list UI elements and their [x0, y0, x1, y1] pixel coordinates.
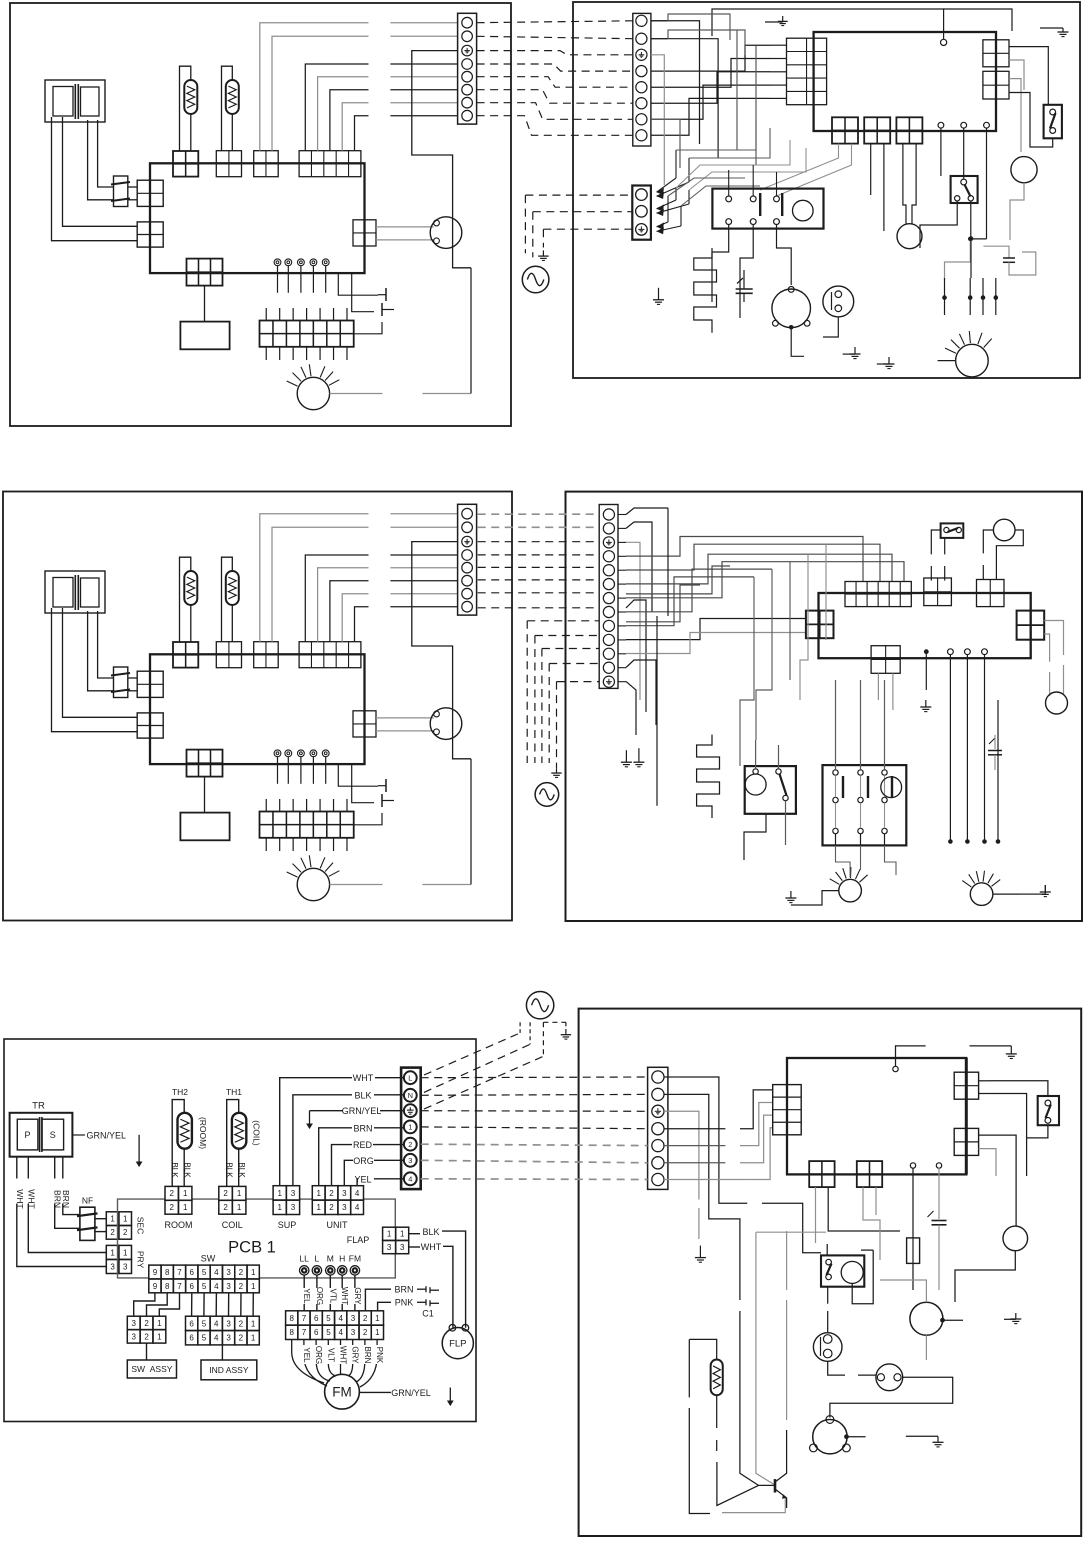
svg-text:FM: FM	[349, 1254, 361, 1264]
svg-text:4: 4	[355, 1203, 360, 1212]
connector above-PCB 1	[924, 578, 952, 606]
wire SW to SW-ASSY	[134, 1293, 155, 1316]
connector PCB-top 6x2	[845, 582, 911, 607]
display assembly box	[180, 322, 229, 350]
wire SUP to terminal rows 1-2	[260, 23, 369, 151]
wire long vertical	[667, 508, 669, 616]
svg-text:TR: TR	[32, 1101, 45, 1112]
overload protector 49C	[823, 286, 854, 317]
fan motor MF B1	[839, 879, 862, 902]
svg-text:TH2: TH2	[172, 1087, 188, 1097]
svg-text:1: 1	[375, 1314, 380, 1323]
wire BRN	[319, 1128, 352, 1186]
connector bottom C2	[857, 1161, 882, 1187]
svg-text:1: 1	[123, 1248, 128, 1257]
wire terminal stubs B	[618, 514, 626, 516]
outdoor fan motor MF	[956, 344, 989, 377]
connector fan-motor 7pin	[260, 812, 354, 838]
svg-text:FLAP: FLAP	[347, 1235, 370, 1245]
noise filter NF	[114, 667, 128, 698]
connector ROOM	[173, 642, 198, 668]
svg-text:VLT: VLT	[326, 1348, 335, 1362]
svg-text:GRN/YEL: GRN/YEL	[391, 1388, 431, 1398]
ground compressor C	[906, 1435, 938, 1437]
AC source power B	[535, 783, 559, 807]
svg-text:PRY: PRY	[136, 1251, 146, 1269]
svg-text:2: 2	[363, 1314, 368, 1323]
svg-text:VTL: VTL	[328, 1289, 337, 1304]
svg-text:1: 1	[110, 1248, 115, 1257]
connector SEC	[137, 180, 163, 206]
wire pin legs down	[949, 655, 951, 842]
wires power feed B dashed	[527, 620, 599, 622]
connector FM 8-pin	[286, 1311, 298, 1325]
panel border indoor unit B	[3, 492, 512, 921]
connector UNIT	[299, 151, 361, 177]
capacitor C3	[983, 246, 1009, 258]
svg-text:1: 1	[251, 1334, 256, 1343]
wire harness rows to PCB area	[626, 537, 863, 582]
svg-text:6: 6	[314, 1314, 319, 1323]
svg-text:PNK: PNK	[375, 1347, 384, 1364]
svg-text:2: 2	[144, 1319, 149, 1328]
motor 21S4 B	[993, 519, 1015, 541]
svg-text:COIL: COIL	[222, 1220, 243, 1230]
terminal block outdoor A	[633, 13, 651, 146]
PCB main board	[150, 163, 365, 273]
wire ground path C	[664, 1111, 699, 1199]
ground right C	[1004, 1318, 1016, 1320]
wires AC diagonal dashed	[424, 1033, 520, 1075]
contactor 88C	[745, 766, 796, 814]
connector above-PCB 2	[977, 580, 1005, 607]
connector SUP detail	[273, 1186, 286, 1200]
svg-text:9: 9	[153, 1282, 158, 1291]
svg-text:4: 4	[214, 1319, 219, 1328]
svg-text:M: M	[327, 1254, 334, 1264]
svg-text:WHT: WHT	[339, 1346, 348, 1364]
fan motor FM detail	[325, 1374, 360, 1409]
wire transformer leads	[52, 117, 138, 241]
switch 63H	[1044, 105, 1062, 139]
svg-text:ROOM: ROOM	[165, 1220, 193, 1230]
svg-text:2: 2	[223, 1189, 228, 1198]
svg-text:1: 1	[251, 1319, 256, 1328]
connector FLAP detail	[383, 1227, 396, 1240]
svg-text:2: 2	[408, 1140, 412, 1149]
svg-text:BLK: BLK	[170, 1162, 179, 1178]
thermistor TH1	[222, 66, 233, 151]
svg-text:ORG: ORG	[353, 1156, 374, 1166]
svg-text:C1: C1	[422, 1309, 434, 1319]
connector PRY	[137, 222, 163, 247]
terminals LL L M H FM	[274, 259, 281, 266]
connector IND-ASSY grid	[186, 1316, 198, 1330]
svg-text:6: 6	[314, 1328, 319, 1337]
wire legs below C conns	[815, 1187, 817, 1243]
svg-text:3: 3	[387, 1243, 392, 1252]
svg-text:3: 3	[123, 1262, 128, 1271]
svg-text:8: 8	[289, 1328, 294, 1337]
svg-text:2: 2	[239, 1268, 244, 1277]
wire top runs	[668, 14, 730, 40]
ground top-right	[1040, 27, 1063, 29]
ground AC A	[542, 250, 544, 256]
svg-text:8: 8	[165, 1282, 170, 1291]
svg-text:1: 1	[316, 1203, 321, 1212]
svg-text:L: L	[408, 1073, 412, 1082]
svg-text:3: 3	[226, 1282, 231, 1291]
wire row5 path	[664, 1145, 725, 1147]
svg-text:WHT: WHT	[421, 1242, 442, 1252]
wire row1 path	[678, 1077, 747, 1203]
svg-text:2: 2	[239, 1319, 244, 1328]
wire relay outputs	[712, 225, 729, 303]
svg-text:4: 4	[214, 1268, 219, 1277]
wire below switch	[920, 201, 957, 248]
svg-text:2: 2	[223, 1203, 228, 1212]
svg-text:2: 2	[169, 1189, 174, 1198]
wire gray verticals C	[786, 1231, 788, 1290]
svg-text:1: 1	[387, 1230, 392, 1239]
power terminal block A	[632, 186, 651, 240]
ground pair B	[625, 750, 627, 762]
capacitor C B	[994, 735, 996, 749]
svg-text:1: 1	[316, 1189, 321, 1198]
svg-text:GRY: GRY	[353, 1287, 362, 1305]
connector PCB-left B	[806, 611, 834, 639]
wire 8pin to FM	[292, 1340, 324, 1384]
ground MF B1	[790, 891, 792, 898]
svg-text:GRN/YEL: GRN/YEL	[87, 1131, 127, 1141]
fan motor FM	[297, 377, 329, 409]
svg-text:4: 4	[338, 1328, 343, 1337]
svg-text:5: 5	[202, 1268, 207, 1277]
relay 52C	[712, 189, 823, 229]
wire transformer leads	[52, 608, 138, 732]
thermal switch 23F	[876, 1364, 903, 1391]
pins PCB bottom edge	[924, 649, 929, 654]
svg-text:GRN/YEL: GRN/YEL	[342, 1106, 382, 1116]
wire GRN/YEL TR	[72, 1134, 85, 1136]
connector SEC	[137, 671, 163, 697]
wire pin to capacitor	[938, 1168, 940, 1219]
switch 63H C	[1038, 1096, 1059, 1125]
svg-text:1: 1	[375, 1328, 380, 1337]
terminals LL L M H FM	[274, 750, 281, 757]
wire feeder horizontals	[676, 120, 756, 150]
svg-text:9: 9	[153, 1268, 158, 1277]
svg-text:3: 3	[291, 1203, 296, 1212]
wire harness rows 4-8 to PCB	[651, 45, 771, 71]
IND ASSY box	[201, 1360, 257, 1380]
capacitor C6	[932, 1220, 947, 1222]
svg-text:3: 3	[400, 1243, 405, 1252]
connector PRY	[137, 713, 163, 738]
pin top of PCB	[941, 39, 947, 45]
ground AC C	[565, 1029, 567, 1035]
wire terminal stubs	[651, 20, 668, 22]
svg-text:3: 3	[131, 1332, 136, 1341]
svg-text:7: 7	[302, 1328, 307, 1337]
connector PCB-left 2x5	[787, 38, 827, 105]
svg-text:1: 1	[237, 1203, 242, 1212]
flap motor FLP detail	[449, 1324, 456, 1331]
svg-text:2: 2	[329, 1203, 334, 1212]
svg-text:H: H	[339, 1254, 345, 1264]
PCB 1 board	[118, 1199, 166, 1278]
svg-text:S: S	[50, 1130, 56, 1140]
ground top C	[970, 1045, 1012, 1047]
wire WHT	[280, 1078, 352, 1186]
noise filter NF	[114, 176, 128, 207]
svg-text:2: 2	[169, 1203, 174, 1212]
svg-text:8: 8	[289, 1314, 294, 1323]
wire harness verticals	[626, 508, 668, 515]
wire BRN C1	[365, 1289, 391, 1311]
svg-text:PCB 1: PCB 1	[228, 1239, 276, 1257]
svg-text:3: 3	[342, 1189, 347, 1198]
PCB outdoor board B	[819, 593, 1031, 658]
svg-text:3: 3	[342, 1203, 347, 1212]
svg-text:LL: LL	[299, 1254, 309, 1264]
svg-text:1: 1	[157, 1332, 162, 1341]
connector SEC detail	[106, 1212, 119, 1226]
svg-text:2: 2	[329, 1189, 334, 1198]
thermistor TH1	[222, 557, 233, 642]
fan motor MF C main	[910, 1302, 943, 1335]
wires interconnect panels 5-6 dashed	[421, 1076, 648, 1079]
svg-text:3: 3	[226, 1334, 231, 1343]
fan motor FM	[297, 868, 329, 900]
svg-text:2: 2	[239, 1334, 244, 1343]
flap motor FLP	[434, 711, 440, 717]
connector COIL	[216, 151, 241, 177]
svg-text:BRN: BRN	[353, 1123, 372, 1133]
svg-text:2: 2	[239, 1282, 244, 1291]
svg-text:2: 2	[363, 1328, 368, 1337]
crankcase heater CH	[694, 248, 717, 333]
wire relay to motors	[836, 845, 851, 877]
relay coil motor B	[881, 777, 902, 798]
wires power feed A dashed	[525, 194, 632, 196]
motor 21S4	[1011, 157, 1037, 183]
svg-text:ORG: ORG	[314, 1346, 323, 1364]
panel border indoor detail	[4, 1039, 476, 1422]
wire PNK C1	[378, 1302, 391, 1311]
connector PCB-right C2	[954, 1128, 978, 1155]
connector SW-ASSY grid	[127, 1316, 140, 1329]
wire row7 path	[664, 1179, 747, 1181]
thermistor TH2	[180, 557, 191, 642]
svg-text:ORG: ORG	[315, 1287, 324, 1305]
terminal block indoor	[458, 13, 477, 124]
svg-text:(ROOM): (ROOM)	[198, 1117, 208, 1149]
ground AC B	[556, 768, 558, 773]
terminal block outdoor B	[599, 505, 618, 689]
capacitor C1	[338, 764, 378, 786]
connector ROOM	[173, 151, 198, 177]
svg-text:BRN: BRN	[363, 1347, 372, 1364]
connector ROOM detail	[165, 1186, 178, 1200]
connector SUP	[254, 642, 279, 668]
PCB outdoor board C	[787, 1058, 966, 1174]
svg-text:NF: NF	[82, 1196, 93, 1206]
wire ground loop	[412, 51, 471, 268]
crankcase heater CH B	[697, 735, 720, 818]
defrost thermistor TH C	[689, 1339, 716, 1359]
ground heater	[658, 288, 660, 300]
svg-text:1: 1	[277, 1189, 282, 1198]
wire to flap motor	[376, 226, 434, 228]
svg-text:TH1: TH1	[226, 1087, 242, 1097]
svg-text:5: 5	[202, 1334, 207, 1343]
svg-text:3: 3	[408, 1156, 412, 1165]
svg-text:SUP: SUP	[278, 1220, 297, 1230]
wire RED	[332, 1145, 353, 1186]
svg-text:1: 1	[408, 1123, 412, 1132]
wire to switch C	[979, 1080, 990, 1082]
wire pin to fuse	[912, 1168, 914, 1238]
svg-text:3: 3	[291, 1189, 296, 1198]
wire to high-pressure switch	[1009, 47, 1048, 105]
connector PCB-right upper	[983, 40, 1009, 67]
connector PCB-bottom B	[871, 646, 900, 674]
svg-text:3: 3	[226, 1319, 231, 1328]
svg-text:7: 7	[177, 1282, 182, 1291]
wire rows 1-3 down	[651, 21, 700, 144]
svg-text:YEL: YEL	[302, 1288, 311, 1304]
svg-text:6: 6	[190, 1268, 195, 1277]
switch 63L	[951, 176, 978, 203]
pins bottom edge	[938, 122, 944, 128]
svg-text:5: 5	[202, 1319, 207, 1328]
svg-text:1: 1	[183, 1203, 188, 1212]
terminal block outdoor C	[648, 1067, 668, 1189]
connector SW	[187, 259, 223, 286]
connector bottom C1	[809, 1161, 834, 1187]
wire feeders to power terminals	[657, 178, 677, 192]
wire to flap motor	[376, 717, 434, 719]
svg-text:BRN: BRN	[394, 1284, 413, 1294]
svg-text:FM: FM	[332, 1385, 352, 1400]
wire ORG	[344, 1160, 353, 1185]
wire protector to thermal switch	[828, 1361, 845, 1375]
wire to PCB-left connector	[626, 619, 806, 640]
svg-text:6: 6	[189, 1319, 194, 1328]
thermistor TH2	[180, 66, 191, 151]
svg-text:UNIT: UNIT	[327, 1220, 348, 1230]
svg-text:4: 4	[214, 1334, 219, 1343]
connector PCB-right C1	[954, 1072, 978, 1099]
AC source power C	[526, 992, 553, 1019]
svg-text:L: L	[315, 1254, 320, 1264]
wire TR leads	[16, 1157, 18, 1179]
svg-text:2: 2	[123, 1228, 128, 1237]
ground C left	[699, 1246, 701, 1258]
wire stubs C	[664, 1076, 678, 1078]
svg-text:YEL: YEL	[354, 1174, 371, 1184]
svg-text:FLP: FLP	[449, 1339, 466, 1350]
svg-text:1: 1	[110, 1215, 115, 1224]
connector SUP	[254, 151, 279, 177]
svg-text:WHT: WHT	[340, 1287, 349, 1305]
wire PCB connector stubs	[771, 44, 787, 46]
wire UNIT to terminal rows 4-8	[305, 64, 368, 151]
PCB main board	[150, 654, 365, 764]
svg-text:1: 1	[157, 1319, 162, 1328]
wire YEL	[356, 1179, 359, 1186]
svg-text:8: 8	[165, 1268, 170, 1277]
svg-text:6: 6	[189, 1334, 194, 1343]
wire long verticals mid	[736, 30, 738, 150]
svg-text:4: 4	[355, 1189, 360, 1198]
transistor Q1	[774, 1479, 777, 1492]
connector bottom A1	[832, 117, 858, 143]
wire ground loop	[412, 542, 471, 759]
svg-text:3: 3	[351, 1328, 356, 1337]
ground top	[765, 21, 783, 23]
PCB outdoor board A	[814, 32, 996, 131]
relay coil motor	[793, 200, 814, 221]
transformer T1	[45, 80, 105, 122]
wire legs below connectors	[760, 144, 839, 190]
display assembly box	[180, 813, 229, 841]
AC source power A	[522, 266, 549, 293]
wire row6 path	[664, 1162, 725, 1164]
connector FLAP	[353, 220, 376, 246]
connector bottom A3	[896, 117, 922, 143]
wire SUP to terminal rows 1-2	[260, 514, 369, 642]
svg-text:RED: RED	[353, 1140, 373, 1150]
switch 63H2	[941, 523, 964, 538]
svg-text:SEC: SEC	[136, 1217, 146, 1234]
compressor motor MC	[772, 289, 811, 328]
panel border outdoor unit A	[573, 2, 1080, 378]
connector SW	[187, 750, 223, 777]
svg-text:1: 1	[183, 1189, 188, 1198]
wire fan motor feeders	[942, 295, 947, 300]
fuse F1	[907, 1238, 920, 1264]
svg-text:3: 3	[226, 1268, 231, 1277]
svg-text:5: 5	[326, 1314, 331, 1323]
svg-text:(COIL): (COIL)	[252, 1120, 262, 1146]
flap motor FLP	[434, 220, 440, 226]
wire row4 path	[664, 1128, 725, 1130]
wire row2 path	[678, 1094, 740, 1300]
pins bottom C	[910, 1163, 915, 1168]
svg-text:2: 2	[110, 1228, 115, 1237]
svg-text:YEL: YEL	[302, 1347, 311, 1363]
wires interconnect panels 1-2 dashed	[477, 21, 633, 23]
svg-text:4: 4	[214, 1282, 219, 1291]
svg-text:1: 1	[251, 1268, 256, 1277]
svg-text:N: N	[408, 1091, 413, 1100]
svg-text:2: 2	[144, 1332, 149, 1341]
svg-text:1: 1	[277, 1203, 282, 1212]
compressor motor MC C	[813, 1420, 847, 1454]
panel border outdoor unit C	[579, 1009, 1082, 1536]
relay 3-pole 52X	[823, 765, 907, 845]
wire to protector	[827, 1287, 829, 1304]
svg-text:1: 1	[251, 1282, 256, 1291]
svg-text:BLK: BLK	[422, 1227, 439, 1237]
svg-text:BLK: BLK	[183, 1162, 192, 1178]
ground compressor	[843, 353, 855, 355]
svg-text:4: 4	[338, 1314, 343, 1323]
svg-text:SW: SW	[201, 1254, 216, 1264]
connector COIL	[216, 642, 241, 668]
